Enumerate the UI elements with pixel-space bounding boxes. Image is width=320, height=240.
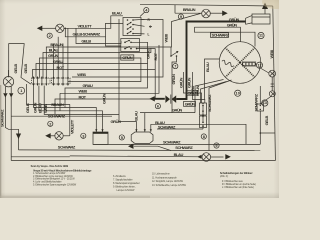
wires strip group2 up — [53, 44, 55, 77]
wire blau run — [151, 124, 246, 144]
generator circle — [219, 42, 261, 84]
circled 6 — [155, 104, 160, 109]
label SCHWARZ boxed generator — [211, 33, 230, 38]
svg-text:WEIß: WEIß — [164, 33, 169, 42]
switch 4 upper housing — [123, 18, 141, 36]
svg-text:(Abb. 4):: (Abb. 4): — [220, 175, 229, 178]
wire lamp to right arrow — [210, 12, 222, 14]
wire headlamp right terminal down then east — [10, 95, 12, 161]
switch 4 contacts col1 — [127, 19, 129, 21]
svg-text:13. Schlußleuchte, Lampe 12V/5: 13. Schlußleuchte, Lampe 12V/5W — [152, 184, 187, 187]
wire headlamp left terminal down (schwarz) — [5, 95, 18, 150]
lower contacts row1 — [124, 42, 126, 44]
wire arrow to lamp — [42, 27, 56, 29]
circled 13 — [262, 100, 268, 106]
svg-text:10: 10 — [236, 90, 240, 95]
arrow left at front blinker top — [37, 26, 43, 31]
wire arrow to spark plug — [154, 98, 165, 100]
svg-text:GRAU: GRAU — [83, 83, 94, 88]
arrow right rear blinker top — [222, 11, 228, 16]
circled 9 top — [178, 14, 183, 19]
svg-text:GRÜN: GRÜN — [111, 119, 122, 124]
wire schwarz long run — [19, 149, 261, 152]
svg-text:GRÜN: GRÜN — [171, 74, 176, 85]
wires gen bottom left — [195, 80, 224, 113]
svg-text:GRÜN: GRÜN — [172, 108, 183, 113]
wire tail lamp to switch — [260, 96, 271, 104]
svg-text:GRAU: GRAU — [145, 48, 150, 59]
svg-text:BRAUN: BRAUN — [183, 7, 196, 12]
hv coil 11 box — [252, 14, 270, 24]
svg-text:BRAUN: BRAUN — [51, 102, 64, 107]
svg-text:SCHWARZ: SCHWARZ — [163, 139, 181, 144]
svg-text:ROT: ROT — [79, 94, 87, 99]
svg-text:10. Lichtmaschine: 10. Lichtmaschine — [152, 173, 170, 176]
arrow left spark wire — [149, 96, 155, 101]
lower wiper2 — [125, 47, 130, 49]
svg-text:GELB: GELB — [13, 64, 18, 74]
wire right border — [273, 6, 276, 161]
svg-text:Scan by Vespa - Das Archiv 199: Scan by Vespa - Das Archiv 1999 — [31, 164, 69, 168]
wire 144 run — [93, 143, 260, 145]
wire gruen second to coil — [194, 27, 240, 42]
wire headlamp body lines — [6, 70, 12, 93]
junction dot — [65, 28, 67, 30]
circled 5 — [119, 135, 124, 140]
headlamp 1 — [3, 77, 13, 87]
lamp 9 rear blinker bottom — [202, 153, 211, 162]
circled 8 — [201, 134, 206, 139]
wire wiper leads to R 0 L — [133, 18, 145, 21]
svg-text:R: R — [148, 18, 151, 22]
wire gelb-schwarz — [65, 23, 123, 36]
generator winding right coil — [242, 62, 256, 66]
svg-text:SCHWARZ: SCHWARZ — [253, 93, 258, 111]
lamp 13 tail light — [269, 91, 275, 97]
wire thick spark to HV coil — [176, 22, 246, 100]
wire arrow to lamp 2b — [51, 135, 56, 137]
circled 7 — [173, 64, 178, 69]
wire regulator ground arrow — [128, 144, 134, 149]
label GRUEN boxed 1 — [187, 90, 199, 95]
wire stop lamp to tail lamp — [271, 77, 274, 91]
wire lamp9b to arrow — [211, 156, 224, 158]
hv coil plug — [246, 16, 252, 25]
svg-text:WEIß: WEIß — [79, 89, 88, 94]
svg-text:GELB: GELB — [81, 38, 91, 43]
svg-text:WEIß: WEIß — [269, 49, 274, 58]
svg-text:GELB: GELB — [264, 116, 269, 126]
wire gen to stop lamp — [259, 67, 269, 73]
svg-text:12. Stopplicht, Lampe 12V/10W: 12. Stopplicht, Lampe 12V/10W — [152, 180, 184, 183]
wire connector 8 bottom down — [202, 128, 204, 130]
strip pins group1 — [34, 77, 68, 86]
wire long vertical from switch down — [119, 19, 136, 132]
hv coil top arrow up — [264, 9, 266, 14]
wire lamp2b to violett vertical — [63, 135, 70, 137]
wire schwarz generator top — [194, 27, 255, 46]
scan corner stain — [262, 0, 290, 9]
svg-text:WEIß: WEIß — [43, 104, 48, 113]
svg-text:GELB: GELB — [23, 64, 28, 74]
svg-text:BLAU: BLAU — [38, 103, 43, 113]
switch 4 lower housing (light switch) — [121, 39, 140, 52]
wire weiss upper — [72, 20, 163, 78]
wire violett from lamp2 to switch — [64, 16, 123, 28]
svg-text:1: 1 — [20, 88, 23, 93]
svg-text:VIOLETT: VIOLETT — [78, 23, 93, 28]
svg-text:BLAU: BLAU — [133, 111, 138, 121]
wire left feed 156 — [11, 156, 70, 158]
svg-text:GELB: GELB — [25, 103, 30, 113]
svg-text:7: 7 — [174, 64, 176, 69]
svg-text:Lampen 12V/21W: Lampen 12V/21W — [117, 189, 136, 192]
wire bottom border — [11, 160, 275, 162]
wire blau — [43, 48, 151, 78]
circled 12 — [256, 62, 262, 68]
wire gelb to switch lower — [76, 28, 121, 43]
svg-text:GELB-SCHWARZ: GELB-SCHWARZ — [73, 32, 101, 37]
scan edge shading — [0, 85, 1, 198]
stop switch 7 — [170, 55, 172, 57]
wire rot from light switch — [137, 49, 156, 70]
circled 11 — [258, 32, 264, 38]
circled 4 — [144, 8, 149, 13]
svg-text:VIOLETT: VIOLETT — [69, 119, 74, 134]
wire gelb hairpin — [9, 44, 31, 85]
ground arrow on schwarz wire — [16, 134, 21, 140]
svg-text:5. Elektronischer Spannungsreg: 5. Elektronischer Spannungsregler 12V/80… — [33, 184, 77, 187]
blinkgeber top band — [93, 132, 108, 134]
tail switch 13 — [257, 104, 264, 111]
wire lamp9t left lead — [175, 12, 202, 14]
svg-text:GRÜN: GRÜN — [101, 93, 106, 104]
circled 3 — [81, 133, 86, 138]
wire gruen run under spark — [140, 112, 195, 114]
svg-text:GRÜN: GRÜN — [32, 102, 37, 113]
svg-text:GRÜN: GRÜN — [122, 55, 133, 60]
connector 8 pins — [202, 105, 204, 107]
svg-text:BRAUN: BRAUN — [50, 42, 63, 47]
wire right column down — [259, 86, 261, 144]
circled 10 — [235, 90, 241, 96]
svg-text:L: L — [148, 33, 150, 37]
small arrow left of lamp9b — [197, 155, 201, 159]
label GRUEN boxed under switch — [121, 55, 134, 60]
wire rot nested — [33, 70, 156, 115]
svg-text:GRÜN: GRÜN — [195, 85, 200, 96]
wire lamp9t feed from top frame — [174, 5, 176, 13]
svg-text:BLAU: BLAU — [112, 11, 122, 16]
svg-text:SCHWARZ: SCHWARZ — [175, 145, 193, 150]
label GRUEN boxed 2 — [184, 101, 196, 106]
svg-text:ROT: ROT — [153, 52, 158, 60]
lamp 2 front-left blinker top — [56, 24, 64, 32]
switch 4 wiper arms — [128, 22, 132, 24]
wire grau from light switch — [131, 42, 148, 63]
svg-text:GRÜN: GRÜN — [178, 77, 183, 88]
svg-text:SCHWARZ: SCHWARZ — [48, 113, 66, 118]
generator spokes — [226, 48, 255, 77]
svg-text:11. Hochspannungsspule: 11. Hochspannungsspule — [152, 176, 177, 179]
wire tail feed right — [260, 132, 275, 134]
junction dot right col — [260, 132, 262, 134]
wire blau generator left — [205, 59, 220, 100]
svg-text:ROT: ROT — [57, 65, 65, 70]
wire drop to lower switch — [106, 37, 121, 46]
svg-text:L = Blinkleuchten ein (linke S: L = Blinkleuchten ein (linke Seite) — [222, 186, 254, 189]
wire grau nested — [36, 64, 148, 108]
terminal arrows into 3 — [95, 129, 97, 132]
svg-text:GRÜN: GRÜN — [227, 22, 238, 27]
svg-text:0: 0 — [150, 25, 152, 29]
lower contacts row2 — [124, 48, 126, 50]
lower wiper — [125, 40, 130, 42]
wires gruen vertical pair — [184, 72, 202, 103]
svg-text:SCHWARZ: SCHWARZ — [58, 145, 76, 150]
svg-text:SCHWARZ: SCHWARZ — [212, 33, 230, 38]
strip pin arrowheads — [32, 76, 69, 85]
circled 2 bottom — [48, 121, 53, 126]
wire branch east — [11, 115, 112, 117]
wire braun — [46, 14, 200, 78]
connector 8 lower — [200, 116, 207, 128]
circled 2 top — [47, 33, 52, 38]
connector 8 upper — [200, 103, 207, 115]
wires strip group down to corners — [27, 84, 70, 104]
generator winding left — [221, 60, 234, 68]
svg-text:GRÜN: GRÜN — [185, 101, 196, 106]
lamp 9 rear blinker top — [202, 9, 211, 18]
wire top border (braun run) — [140, 4, 273, 6]
headlamp terminal arrows down — [3, 93, 7, 97]
switch 4 contacts col2 — [132, 19, 134, 21]
spark plug 6 gap — [165, 95, 170, 103]
regulator 5 octagon — [131, 132, 153, 144]
wire gruen nested — [40, 58, 141, 82]
connector strip box B — [52, 78, 71, 84]
wire schwarz run mid — [157, 128, 203, 130]
circled 9 bottom — [214, 143, 219, 148]
wire circled4 pointer — [140, 12, 145, 16]
arrow left at blinker 2b — [45, 133, 51, 138]
svg-text:BLAU: BLAU — [205, 62, 210, 72]
regulator terminals — [144, 113, 146, 132]
arrow right rear blinker bottom — [225, 154, 231, 159]
wire blau to rear lamp bottom — [70, 155, 202, 158]
blinkgeber 3 box — [93, 132, 108, 144]
circled 1 — [18, 87, 25, 94]
lamp 12 stop light — [269, 70, 276, 77]
wire stop switch leads — [170, 47, 172, 56]
wire violett down to rear lamp2 — [69, 104, 71, 135]
svg-text:WEIß: WEIß — [77, 72, 86, 77]
svg-text:SCHWARZ: SCHWARZ — [207, 94, 212, 112]
lamp 2 front blinker bottom — [55, 132, 63, 140]
wire weiss lower — [60, 45, 159, 111]
wire schwarz gen down — [209, 80, 232, 151]
connector strip box A — [32, 78, 51, 84]
